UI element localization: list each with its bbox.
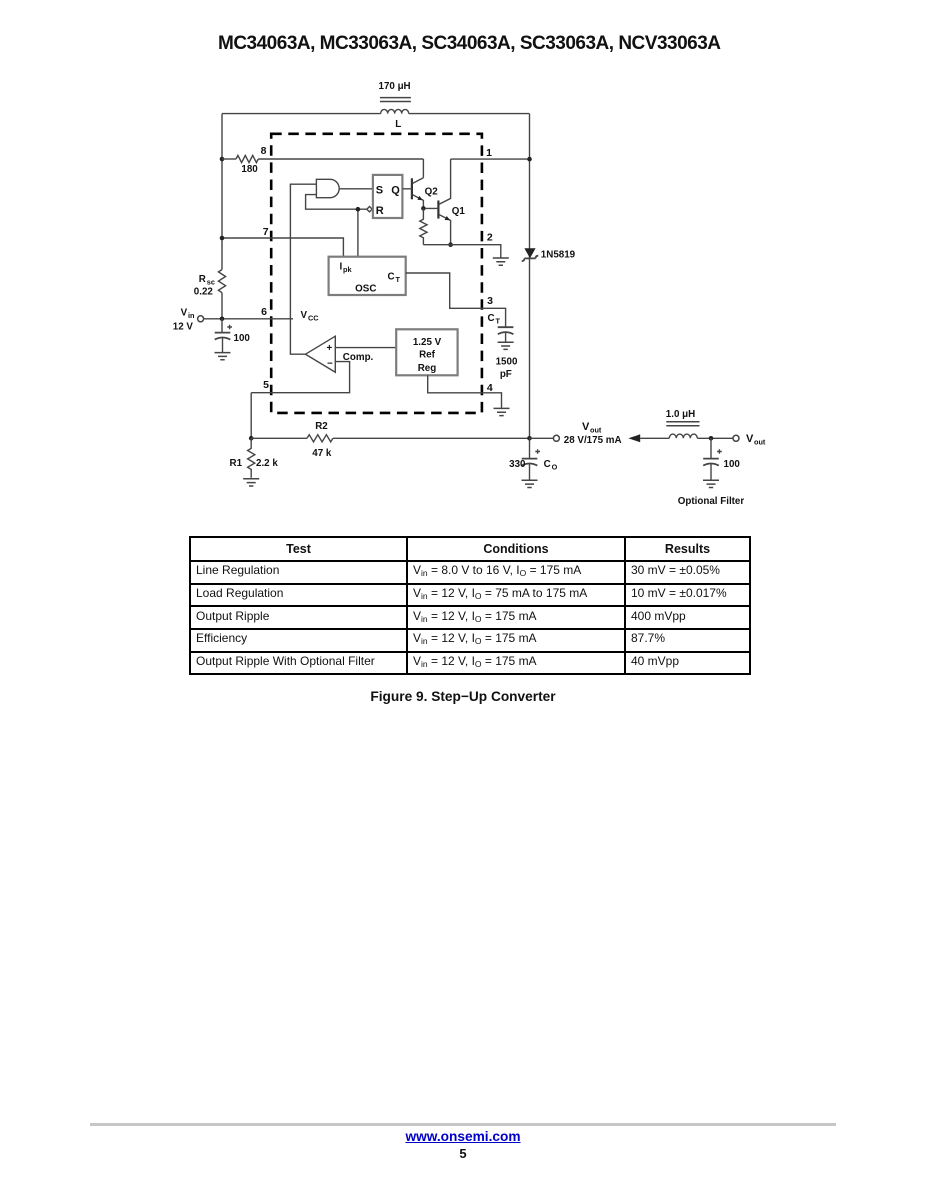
svg-text:+: + [327, 343, 333, 354]
pin label 1 [486, 147, 492, 159]
terminal Vin [198, 316, 204, 322]
node Q2 emitter junction [421, 206, 426, 211]
ground pin 4 [494, 408, 510, 415]
svg-text:in: in [188, 311, 195, 320]
terminal Vout filter [733, 435, 739, 441]
wire pin 1 [451, 158, 530, 160]
node pin 8 junction [220, 157, 225, 162]
svg-text:5: 5 [263, 379, 269, 391]
svg-text:C: C [488, 313, 495, 324]
pin label 4 [487, 382, 493, 394]
svg-text:pk: pk [343, 265, 352, 274]
resistor R1 2.2k [230, 438, 279, 478]
label Vin 12V [173, 308, 195, 333]
svg-text:2.2 k: 2.2 k [256, 458, 278, 469]
wire right rail [529, 114, 531, 439]
pin label 3 [487, 295, 493, 307]
svg-text:R1: R1 [230, 458, 243, 469]
svg-text:7: 7 [263, 226, 269, 238]
wire feedback row [251, 437, 529, 439]
svg-text:8: 8 [261, 145, 267, 157]
svg-text:O: O [552, 463, 558, 472]
svg-text:1500: 1500 [496, 357, 518, 368]
AND gate [316, 179, 339, 197]
svg-text:S: S [376, 185, 383, 197]
wire pin 3 [406, 273, 506, 327]
svg-text:1.25 V: 1.25 V [413, 337, 442, 348]
svg-text:T: T [396, 275, 401, 284]
wire pin 8 stub [222, 158, 236, 160]
svg-text:pF: pF [500, 369, 512, 380]
svg-text:V: V [746, 433, 754, 445]
capacitor CT 1500pF [496, 327, 518, 380]
svg-text:out: out [590, 426, 602, 435]
IC dashed box [271, 134, 482, 413]
label Vout 28V/175mA [564, 421, 622, 446]
ground CO [522, 480, 538, 487]
svg-text:R: R [376, 205, 384, 217]
svg-text:6: 6 [261, 306, 267, 318]
node Q1 emitter junction [448, 242, 453, 247]
svg-text:100: 100 [724, 459, 741, 470]
wire gate output to S [339, 188, 373, 190]
wire filter to terminal [697, 437, 733, 439]
transistor Q1 [426, 159, 466, 245]
wire pin 8 to Q2 collector [258, 159, 423, 178]
pin label 2 [487, 232, 493, 244]
wire left rail [221, 114, 223, 319]
wire pin 6 [204, 318, 293, 320]
label Optional Filter [678, 496, 745, 507]
svg-text:47 k: 47 k [312, 448, 332, 459]
svg-text:L: L [395, 119, 401, 130]
capacitor 100 filter [703, 438, 740, 480]
svg-text:CC: CC [308, 314, 319, 323]
svg-text:V: V [181, 308, 188, 319]
arrow to Vout [628, 434, 669, 442]
pin label 5 [263, 379, 269, 391]
latch box [373, 175, 403, 218]
node pin 7 junction [220, 236, 225, 241]
inverter bubble on R input [367, 207, 372, 212]
wire comparator plus input [335, 347, 396, 349]
pin label 6 [261, 306, 267, 318]
ground filter cap [703, 480, 719, 487]
svg-text:1: 1 [486, 147, 492, 159]
transistor Q2 [402, 178, 438, 209]
svg-text:12 V: 12 V [173, 322, 194, 333]
label Vout right [746, 433, 766, 447]
terminal Vout main [553, 435, 559, 441]
node pin 1 junction [527, 157, 532, 162]
wire top rail [222, 113, 530, 115]
svg-text:out: out [754, 438, 766, 447]
svg-text:100: 100 [234, 333, 251, 344]
svg-text:1N5819: 1N5819 [541, 249, 576, 260]
svg-text:Optional Filter: Optional Filter [678, 496, 745, 507]
svg-text:4: 4 [487, 382, 493, 394]
oscillator box OSC [329, 257, 406, 295]
reference regulator box [396, 329, 457, 375]
node R net junction [356, 207, 361, 212]
svg-text:−: − [327, 358, 333, 369]
capacitor CO 330 [509, 438, 557, 480]
svg-text:Ref: Ref [419, 350, 436, 361]
ground 100 cap [215, 353, 231, 360]
svg-text:R2: R2 [315, 421, 328, 432]
node output junction [527, 436, 532, 441]
wire pin 2 [423, 245, 500, 258]
svg-text:Q1: Q1 [452, 206, 466, 217]
svg-text:0.22: 0.22 [194, 287, 214, 298]
svg-text:V: V [582, 421, 590, 433]
pin label 8 [261, 145, 267, 157]
svg-text:T: T [496, 317, 501, 326]
svg-text:3: 3 [487, 295, 493, 307]
resistor R2 47k [307, 421, 333, 459]
diode 1N5819 [522, 248, 576, 261]
wire pin 4 [428, 375, 502, 408]
node feedback junction [249, 436, 254, 441]
ground CT [498, 342, 514, 349]
svg-text:OSC: OSC [355, 284, 376, 295]
svg-text:1.0 μH: 1.0 μH [666, 409, 695, 420]
resistor 180 [236, 155, 258, 174]
capacitor 100 at Vin [215, 319, 251, 353]
comparator [306, 336, 374, 372]
svg-text:330: 330 [509, 459, 526, 470]
svg-text:C: C [544, 459, 551, 470]
svg-text:V: V [301, 310, 308, 321]
ground R1 [243, 479, 259, 486]
resistor Q2 emitter [420, 208, 427, 244]
ground pin 2 [493, 258, 509, 265]
node pin 6 junction [220, 317, 225, 322]
svg-text:sc: sc [207, 278, 215, 287]
wire pin 7 [222, 238, 343, 257]
inductor L 170uH [379, 81, 411, 130]
label VCC [301, 310, 320, 323]
resistor Rsc 0.22 [194, 270, 226, 298]
svg-text:170 μH: 170 μH [379, 81, 411, 92]
node filter junction [709, 436, 714, 441]
svg-text:2: 2 [487, 232, 493, 244]
svg-text:Reg: Reg [418, 363, 437, 374]
wire pin 5 to comparator minus [251, 362, 349, 439]
svg-text:Q2: Q2 [425, 186, 439, 197]
filter inductor 1.0uH [666, 409, 700, 438]
pin label 7 [263, 226, 269, 238]
wire gate top input from comparator output [290, 184, 316, 354]
svg-text:28 V/175 mA: 28 V/175 mA [564, 435, 622, 446]
svg-text:Q: Q [391, 185, 400, 197]
svg-text:R: R [199, 274, 206, 285]
wire output to terminal [530, 437, 554, 439]
wire gate lower input / R net [306, 195, 367, 257]
svg-text:C: C [388, 272, 395, 283]
label CT [488, 313, 501, 326]
svg-text:180: 180 [241, 164, 258, 175]
